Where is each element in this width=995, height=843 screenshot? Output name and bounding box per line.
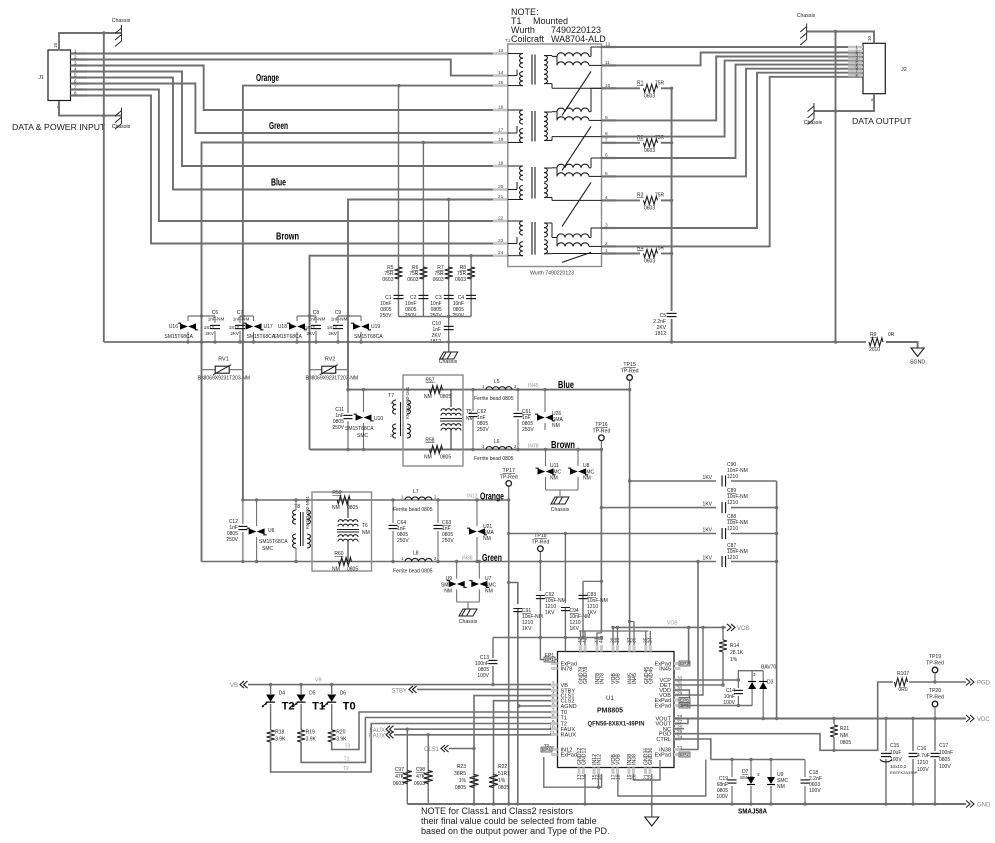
svg-text:1KV: 1KV bbox=[570, 626, 580, 632]
svg-text:250V: 250V bbox=[332, 425, 344, 431]
svg-text:R59: R59 bbox=[332, 490, 341, 496]
svg-text:75R: 75R bbox=[655, 192, 665, 198]
svg-text:R107: R107 bbox=[897, 671, 909, 677]
svg-text:TP15: TP15 bbox=[623, 362, 636, 368]
svg-text:23: 23 bbox=[498, 238, 504, 244]
svg-text:R60: R60 bbox=[334, 551, 343, 557]
svg-text:0603: 0603 bbox=[644, 93, 655, 99]
svg-text:1210: 1210 bbox=[727, 474, 738, 480]
svg-text:TP-Red: TP-Red bbox=[621, 369, 639, 375]
svg-text:U6: U6 bbox=[268, 528, 275, 534]
svg-text:Brown: Brown bbox=[276, 231, 299, 243]
svg-text:their final value could be sel: their final value could be selected from… bbox=[421, 816, 597, 826]
svg-text:Chassis: Chassis bbox=[112, 124, 131, 130]
svg-text:Ferrite bead 0805: Ferrite bead 0805 bbox=[393, 569, 433, 575]
svg-text:250V: 250V bbox=[226, 537, 238, 543]
svg-text:U11: U11 bbox=[550, 463, 559, 469]
svg-text:1nF-NM: 1nF-NM bbox=[331, 317, 348, 322]
svg-text:EP1: EP1 bbox=[545, 653, 555, 659]
svg-text:R22: R22 bbox=[498, 764, 507, 770]
svg-text:4.7uF: 4.7uF bbox=[917, 753, 930, 759]
svg-text:Green: Green bbox=[482, 552, 502, 564]
svg-text:ExPad: ExPad bbox=[655, 753, 671, 759]
svg-text:WA8704-ALD: WA8704-ALD bbox=[551, 34, 606, 44]
svg-text:VOB: VOB bbox=[616, 673, 622, 684]
svg-text:VOB: VOB bbox=[667, 621, 678, 627]
svg-text:TP16: TP16 bbox=[595, 422, 608, 428]
svg-text:TP-Red: TP-Red bbox=[531, 540, 549, 546]
svg-text:IN45: IN45 bbox=[528, 383, 539, 389]
svg-text:L5: L5 bbox=[494, 379, 500, 385]
svg-text:0603: 0603 bbox=[644, 259, 655, 265]
svg-text:IN12: IN12 bbox=[467, 494, 478, 500]
svg-text:IN78: IN78 bbox=[561, 667, 573, 673]
svg-text:R57: R57 bbox=[425, 378, 434, 384]
svg-text:RAUX: RAUX bbox=[368, 734, 385, 740]
svg-text:GND: GND bbox=[977, 803, 991, 809]
svg-text:VDC: VDC bbox=[977, 717, 990, 723]
svg-text:U16: U16 bbox=[169, 324, 178, 330]
svg-text:1KV: 1KV bbox=[703, 475, 713, 481]
svg-text:1812: 1812 bbox=[327, 325, 338, 330]
svg-text:1KV: 1KV bbox=[703, 528, 713, 534]
svg-text:NOTE for Class1 and Class2 res: NOTE for Class1 and Class2 resistors bbox=[421, 806, 574, 816]
svg-text:C17: C17 bbox=[939, 743, 948, 749]
svg-text:L8: L8 bbox=[413, 551, 419, 557]
svg-text:R19: R19 bbox=[306, 730, 315, 736]
svg-text:NM: NM bbox=[332, 505, 340, 511]
svg-text:0603: 0603 bbox=[414, 781, 425, 787]
svg-text:NM: NM bbox=[840, 733, 848, 739]
svg-text:Chassis: Chassis bbox=[804, 120, 823, 126]
svg-text:2KV: 2KV bbox=[205, 331, 215, 336]
svg-text:2KV: 2KV bbox=[230, 331, 240, 336]
svg-text:NM: NM bbox=[362, 530, 370, 536]
svg-text:28.1K: 28.1K bbox=[730, 650, 744, 656]
svg-text:NM: NM bbox=[424, 455, 432, 461]
svg-text:TP-Red: TP-Red bbox=[592, 429, 610, 435]
svg-text:2KV: 2KV bbox=[306, 331, 316, 336]
svg-text:250V: 250V bbox=[397, 538, 409, 544]
svg-text:1%: 1% bbox=[498, 778, 506, 784]
svg-text:0805: 0805 bbox=[347, 567, 358, 573]
svg-text:T5: T5 bbox=[466, 409, 472, 415]
svg-text:BAV70: BAV70 bbox=[761, 665, 776, 671]
svg-text:0603: 0603 bbox=[644, 205, 655, 211]
svg-text:1210: 1210 bbox=[727, 526, 738, 532]
svg-text:Orange: Orange bbox=[480, 491, 504, 503]
svg-text:1KV: 1KV bbox=[703, 502, 713, 508]
svg-text:100V: 100V bbox=[477, 673, 489, 679]
svg-text:NM: NM bbox=[424, 394, 432, 400]
svg-text:250V: 250V bbox=[380, 313, 392, 319]
svg-text:0R: 0R bbox=[888, 332, 895, 338]
svg-text:47K: 47K bbox=[395, 774, 405, 780]
svg-text:1KV: 1KV bbox=[522, 626, 532, 632]
svg-text:GND45: GND45 bbox=[648, 667, 654, 684]
svg-text:J1: J1 bbox=[38, 75, 44, 81]
svg-text:13: 13 bbox=[498, 48, 504, 54]
svg-text:GND12: GND12 bbox=[582, 748, 588, 765]
svg-text:3: 3 bbox=[757, 772, 760, 777]
svg-text:T6: T6 bbox=[362, 523, 368, 529]
svg-text:T2: T2 bbox=[343, 766, 349, 772]
svg-text:1%: 1% bbox=[730, 657, 738, 663]
svg-text:GND36: GND36 bbox=[648, 748, 654, 765]
svg-text:0805: 0805 bbox=[455, 785, 466, 791]
svg-text:KN102-202-1M1: KN102-202-1M1 bbox=[405, 386, 410, 419]
svg-text:Ferrite bead 0805: Ferrite bead 0805 bbox=[474, 456, 514, 462]
svg-text:NM: NM bbox=[444, 589, 452, 595]
svg-text:14: 14 bbox=[498, 70, 504, 76]
svg-text:T0: T0 bbox=[343, 701, 356, 713]
svg-text:Green: Green bbox=[269, 120, 288, 132]
svg-text:0805: 0805 bbox=[498, 785, 509, 791]
svg-text:GND78: GND78 bbox=[583, 667, 589, 684]
svg-text:TP20: TP20 bbox=[929, 688, 942, 694]
svg-text:D5: D5 bbox=[309, 691, 316, 697]
svg-text:U8: U8 bbox=[583, 463, 590, 469]
svg-text:1210: 1210 bbox=[917, 760, 928, 766]
svg-text:R18: R18 bbox=[275, 730, 284, 736]
svg-text:VB: VB bbox=[230, 683, 238, 689]
svg-text:D4: D4 bbox=[279, 691, 286, 697]
svg-text:B88069X9231T203-NM: B88069X9231T203-NM bbox=[306, 376, 359, 382]
svg-text:Brown: Brown bbox=[551, 439, 575, 451]
svg-text:T7: T7 bbox=[388, 393, 394, 399]
svg-text:C97: C97 bbox=[395, 767, 404, 773]
svg-text:1KV: 1KV bbox=[587, 610, 597, 616]
svg-text:Chassis: Chassis bbox=[112, 18, 131, 24]
svg-text:0805: 0805 bbox=[347, 505, 358, 511]
svg-text:0R0: 0R0 bbox=[898, 687, 907, 693]
svg-text:R58: R58 bbox=[425, 438, 434, 444]
svg-text:38R5: 38R5 bbox=[454, 771, 466, 777]
svg-text:DATA OUTPUT: DATA OUTPUT bbox=[852, 116, 912, 126]
svg-text:1%: 1% bbox=[459, 778, 467, 784]
svg-text:24: 24 bbox=[498, 250, 504, 256]
svg-text:IN45: IN45 bbox=[632, 673, 638, 684]
svg-text:10x10,2: 10x10,2 bbox=[890, 764, 907, 769]
svg-text:1nF-NM: 1nF-NM bbox=[233, 317, 250, 322]
svg-text:T1: T1 bbox=[344, 756, 350, 762]
svg-text:U9: U9 bbox=[446, 576, 453, 582]
svg-text:RV2: RV2 bbox=[325, 357, 336, 363]
svg-text:IN78: IN78 bbox=[528, 444, 539, 450]
svg-text:16: 16 bbox=[498, 105, 504, 111]
svg-text:IN38: IN38 bbox=[462, 556, 473, 562]
svg-text:3.9K: 3.9K bbox=[336, 737, 347, 743]
svg-text:L7: L7 bbox=[413, 489, 419, 495]
svg-text:EP2: EP2 bbox=[680, 752, 689, 757]
svg-text:1812: 1812 bbox=[229, 325, 240, 330]
svg-text:R14: R14 bbox=[730, 643, 739, 649]
svg-text:C98: C98 bbox=[416, 767, 425, 773]
svg-text:EEEFK2A330P: EEEFK2A330P bbox=[890, 770, 918, 775]
svg-text:10: 10 bbox=[53, 42, 58, 48]
svg-text:0805: 0805 bbox=[840, 740, 851, 746]
svg-text:SGND: SGND bbox=[910, 360, 925, 366]
svg-text:VOB: VOB bbox=[737, 626, 750, 632]
svg-text:21: 21 bbox=[498, 194, 504, 200]
svg-text:100V: 100V bbox=[890, 757, 902, 763]
svg-text:T0: T0 bbox=[345, 744, 351, 750]
svg-text:NM: NM bbox=[332, 567, 340, 573]
svg-text:1812: 1812 bbox=[305, 325, 316, 330]
svg-text:NM: NM bbox=[485, 589, 493, 595]
svg-text:1210: 1210 bbox=[727, 555, 738, 561]
svg-text:Wurth 7490220123: Wurth 7490220123 bbox=[530, 271, 574, 277]
svg-text:U17: U17 bbox=[264, 324, 273, 330]
svg-text:TP17: TP17 bbox=[502, 468, 515, 474]
svg-text:PM8805: PM8805 bbox=[597, 706, 623, 715]
svg-text:100V: 100V bbox=[939, 764, 951, 770]
svg-text:250V: 250V bbox=[522, 427, 534, 433]
svg-text:QFN56-8X8X1-49PIN: QFN56-8X8X1-49PIN bbox=[588, 721, 646, 728]
svg-text:100V: 100V bbox=[716, 794, 728, 800]
svg-text:22: 22 bbox=[498, 216, 504, 222]
svg-text:75R: 75R bbox=[655, 80, 665, 86]
svg-text:17: 17 bbox=[498, 128, 504, 134]
svg-text:Chassis: Chassis bbox=[551, 507, 570, 513]
svg-text:2010: 2010 bbox=[869, 347, 880, 353]
svg-text:Ferrite bead 0805: Ferrite bead 0805 bbox=[474, 396, 514, 402]
svg-text:250V: 250V bbox=[442, 538, 454, 544]
svg-text:D6: D6 bbox=[340, 691, 347, 697]
svg-text:U7: U7 bbox=[485, 576, 492, 582]
svg-text:3.9K: 3.9K bbox=[306, 737, 317, 743]
svg-text:C16: C16 bbox=[917, 746, 926, 752]
svg-text:SM15T68CA: SM15T68CA bbox=[247, 334, 276, 340]
svg-text:NM: NM bbox=[583, 476, 591, 482]
svg-text:0603: 0603 bbox=[393, 781, 404, 787]
svg-text:SM15T68CA: SM15T68CA bbox=[164, 334, 193, 340]
svg-text:U1: U1 bbox=[606, 696, 614, 702]
svg-text:Chassis: Chassis bbox=[797, 13, 816, 19]
svg-text:DATA & POWER INPUT: DATA & POWER INPUT bbox=[12, 122, 106, 132]
svg-text:EP6: EP6 bbox=[680, 698, 689, 703]
svg-text:STBY: STBY bbox=[391, 689, 407, 695]
svg-text:C7: C7 bbox=[237, 310, 244, 316]
svg-text:100V: 100V bbox=[917, 767, 929, 773]
svg-text:1210: 1210 bbox=[727, 500, 738, 506]
svg-text:J2: J2 bbox=[901, 67, 907, 73]
svg-text:T8: T8 bbox=[294, 504, 300, 510]
svg-text:1KV: 1KV bbox=[703, 556, 713, 562]
svg-text:100V: 100V bbox=[809, 788, 821, 794]
svg-text:C8: C8 bbox=[313, 310, 320, 316]
svg-text:C6: C6 bbox=[212, 310, 219, 316]
svg-text:NM: NM bbox=[552, 423, 560, 429]
svg-text:R1: R1 bbox=[637, 80, 644, 86]
svg-text:C15: C15 bbox=[890, 743, 899, 749]
svg-text:R23: R23 bbox=[457, 764, 466, 770]
svg-text:0603: 0603 bbox=[433, 277, 444, 283]
svg-text:R3: R3 bbox=[637, 192, 644, 198]
svg-text:20: 20 bbox=[498, 184, 504, 190]
svg-text:IN78: IN78 bbox=[600, 673, 606, 684]
svg-text:SMAJ58A: SMAJ58A bbox=[738, 809, 767, 816]
svg-text:PGD: PGD bbox=[977, 681, 991, 687]
svg-text:T2: T2 bbox=[544, 743, 550, 748]
svg-text:NM: NM bbox=[483, 536, 491, 542]
svg-text:TP-Red: TP-Red bbox=[926, 695, 944, 701]
svg-text:0603: 0603 bbox=[382, 277, 393, 283]
svg-text:Coilcraft: Coilcraft bbox=[511, 34, 545, 44]
svg-text:IN45: IN45 bbox=[659, 667, 671, 673]
svg-text:VOB: VOB bbox=[616, 754, 622, 765]
svg-text:Ferrite bead 0805: Ferrite bead 0805 bbox=[393, 507, 433, 513]
svg-text:CLS1: CLS1 bbox=[424, 747, 440, 753]
svg-text:3.9K: 3.9K bbox=[275, 737, 286, 743]
svg-text:R9: R9 bbox=[870, 332, 877, 338]
svg-text:2KV: 2KV bbox=[328, 331, 338, 336]
svg-text:RV1: RV1 bbox=[218, 357, 229, 363]
svg-text:TP-Red: TP-Red bbox=[926, 661, 944, 667]
svg-text:IN12: IN12 bbox=[597, 754, 603, 765]
svg-text:Blue: Blue bbox=[558, 379, 574, 391]
svg-text:ExPad: ExPad bbox=[655, 704, 671, 710]
svg-text:0603: 0603 bbox=[644, 148, 655, 154]
svg-text:L6: L6 bbox=[494, 439, 500, 445]
svg-text:10uF: 10uF bbox=[890, 750, 901, 756]
svg-text:0805: 0805 bbox=[440, 455, 451, 461]
svg-text:IN38: IN38 bbox=[632, 754, 638, 765]
svg-text:0603: 0603 bbox=[455, 277, 466, 283]
svg-text:47K: 47K bbox=[416, 774, 426, 780]
svg-text:1KV: 1KV bbox=[545, 610, 555, 616]
svg-text:SM15T68CA: SM15T68CA bbox=[354, 334, 383, 340]
svg-text:18: 18 bbox=[498, 137, 504, 143]
svg-text:RAUX: RAUX bbox=[561, 733, 577, 739]
svg-text:SMAD: SMAD bbox=[740, 775, 754, 780]
svg-text:CTRL: CTRL bbox=[656, 737, 671, 743]
svg-text:SMC: SMC bbox=[262, 546, 274, 552]
svg-text:U10: U10 bbox=[374, 416, 383, 422]
svg-text:10: 10 bbox=[867, 35, 872, 41]
svg-text:0603: 0603 bbox=[407, 277, 418, 283]
svg-text:U19: U19 bbox=[371, 324, 380, 330]
svg-text:KN102-202-NM1: KN102-202-NM1 bbox=[305, 495, 310, 529]
svg-text:22: 22 bbox=[648, 774, 654, 780]
svg-text:Chassis: Chassis bbox=[439, 359, 458, 365]
svg-text:250V: 250V bbox=[477, 427, 489, 433]
svg-text:1nF-NM: 1nF-NM bbox=[309, 317, 326, 322]
svg-text:R20: R20 bbox=[336, 730, 345, 736]
svg-text:TP19: TP19 bbox=[929, 654, 942, 660]
svg-text:SM15T68CA: SM15T68CA bbox=[259, 539, 288, 545]
svg-text:0805: 0805 bbox=[939, 757, 950, 763]
svg-text:51R1: 51R1 bbox=[498, 771, 510, 777]
svg-text:D3: D3 bbox=[767, 680, 774, 686]
svg-text:TP-Red: TP-Red bbox=[500, 475, 518, 481]
svg-text:ExPad: ExPad bbox=[561, 753, 577, 759]
svg-text:NM: NM bbox=[777, 784, 785, 790]
svg-text:1812: 1812 bbox=[204, 325, 215, 330]
svg-text:C9: C9 bbox=[335, 310, 342, 316]
svg-text:VB: VB bbox=[315, 678, 322, 684]
svg-text:U18: U18 bbox=[278, 324, 287, 330]
svg-text:SM15T68CA: SM15T68CA bbox=[273, 334, 302, 340]
svg-text:Blue: Blue bbox=[271, 177, 286, 189]
svg-text:SMC: SMC bbox=[357, 433, 369, 439]
svg-text:NM: NM bbox=[550, 476, 558, 482]
svg-text:1812: 1812 bbox=[655, 331, 666, 337]
svg-text:SM15T68CA: SM15T68CA bbox=[345, 426, 374, 432]
svg-text:15: 15 bbox=[498, 80, 504, 86]
svg-text:100nF: 100nF bbox=[939, 750, 953, 756]
svg-text:19: 19 bbox=[498, 161, 504, 167]
svg-text:R21: R21 bbox=[840, 726, 849, 732]
svg-text:Orange: Orange bbox=[256, 72, 279, 84]
svg-text:based on the output power and: based on the output power and Type of th… bbox=[421, 826, 609, 836]
svg-text:1nF-NM: 1nF-NM bbox=[208, 317, 225, 322]
svg-text:Chassis: Chassis bbox=[459, 619, 478, 625]
svg-text:20: 20 bbox=[632, 774, 638, 780]
svg-text:0805: 0805 bbox=[440, 394, 451, 400]
